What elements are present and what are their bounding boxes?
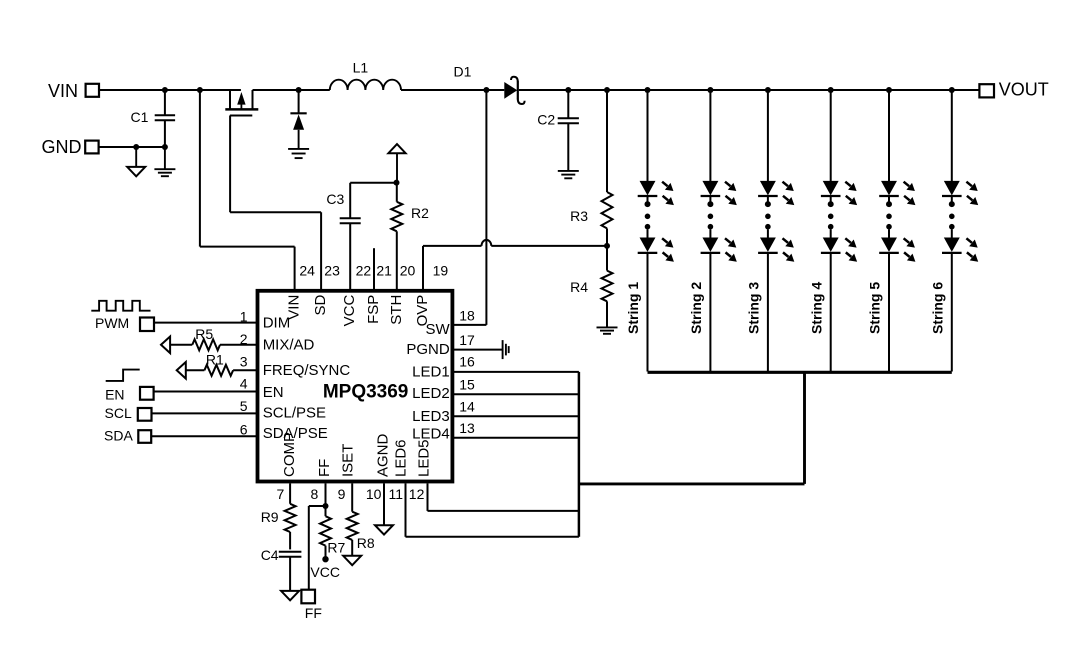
- svg-text:22: 22: [356, 263, 372, 279]
- svg-text:11: 11: [389, 486, 404, 502]
- svg-text:SDA: SDA: [104, 427, 133, 443]
- terminal SDA: [138, 430, 151, 443]
- wire FF to terminal: [309, 505, 326, 507]
- wire L1 to D1: [401, 89, 504, 91]
- svg-text:10: 10: [366, 486, 382, 502]
- ground (arrow) at GND: [135, 147, 137, 167]
- svg-text:R9: R9: [261, 509, 279, 525]
- svg-text:GND: GND: [42, 137, 82, 157]
- capacitor C1: [164, 90, 166, 115]
- terminal VOUT: [979, 84, 994, 97]
- node string 4 top junction: [828, 87, 834, 93]
- svg-text:R5: R5: [195, 326, 213, 342]
- ground (earth) below D2: [288, 148, 309, 150]
- wire pin 10 AGND: [383, 483, 385, 525]
- transistor Q1 channel plate: [225, 108, 258, 111]
- node OVP junction: [604, 243, 610, 249]
- terminal EN: [140, 387, 154, 400]
- svg-text:LED1: LED1: [412, 363, 450, 380]
- ground (earth) below C2: [558, 170, 579, 172]
- svg-text:R4: R4: [570, 279, 588, 295]
- svg-text:16: 16: [459, 354, 475, 370]
- transistor Q1 gate plate: [230, 115, 252, 117]
- capacitor C3: [349, 183, 351, 218]
- svg-text:LED5: LED5: [416, 439, 433, 477]
- transistor Q1 drain stub: [252, 90, 254, 109]
- svg-text:24: 24: [299, 263, 315, 279]
- svg-text:13: 13: [459, 420, 475, 436]
- arrow MIX/AD: [161, 337, 170, 354]
- wire pin 16 LED1: [453, 371, 579, 373]
- ground (earth) below R4: [597, 326, 618, 328]
- diode D1 schottky: [504, 82, 517, 99]
- wire LED return horizontal: [579, 482, 805, 485]
- node FF junction: [323, 503, 329, 509]
- EN step waveform symbol: [106, 370, 140, 381]
- transistor Q1 source stub: [229, 90, 231, 109]
- LED string 1 (diodes and wires): [647, 90, 649, 181]
- terminal FF: [301, 590, 315, 604]
- resistor R2: [396, 183, 398, 202]
- svg-text:VIN: VIN: [48, 81, 78, 101]
- terminal VIN: [86, 84, 99, 97]
- wire GND net: [99, 146, 165, 148]
- node VCC at R7: [322, 556, 328, 562]
- node C2 junction: [565, 87, 571, 93]
- svg-text:L1: L1: [353, 60, 369, 76]
- svg-text:18: 18: [459, 307, 475, 323]
- svg-text:LED6: LED6: [393, 439, 410, 477]
- svg-text:LED3: LED3: [412, 408, 450, 425]
- node VIN/pin24 junction: [197, 87, 203, 93]
- svg-text:COMP: COMP: [281, 432, 298, 477]
- svg-text:R3: R3: [570, 208, 588, 224]
- svg-text:String 2: String 2: [688, 282, 704, 334]
- wire pin 1 DIM: [154, 322, 258, 324]
- svg-text:C1: C1: [131, 109, 149, 125]
- svg-text:EN: EN: [263, 384, 284, 401]
- svg-text:R2: R2: [411, 205, 429, 221]
- wire pin 4 EN: [154, 391, 258, 393]
- LED string 4 (diodes and wires): [830, 90, 832, 181]
- node string 1 top junction: [645, 87, 651, 93]
- resistor R4: [606, 246, 608, 271]
- terminal GND: [85, 141, 98, 154]
- svg-text:AGND: AGND: [375, 433, 392, 477]
- svg-text:String 6: String 6: [930, 282, 946, 334]
- LED string 5 (diodes and wires): [888, 90, 890, 181]
- svg-text:8: 8: [311, 486, 319, 502]
- svg-text:VOUT: VOUT: [999, 80, 1049, 100]
- svg-text:VCC: VCC: [341, 295, 358, 327]
- ground (arrow) below AGND: [375, 525, 393, 534]
- svg-text:STH: STH: [388, 295, 405, 325]
- node string 5 top junction: [886, 87, 892, 93]
- svg-text:FREQ/SYNC: FREQ/SYNC: [263, 362, 351, 379]
- svg-text:20: 20: [400, 263, 416, 279]
- pin 21 stub FSP: [373, 248, 375, 289]
- node VIN/C1 junction: [162, 87, 168, 93]
- wire Q1 gate to pin 23: [229, 116, 231, 213]
- wire VIN to pin 24: [199, 90, 201, 247]
- inductor L1: [330, 80, 401, 90]
- diode D2 freewheel: [298, 90, 300, 113]
- LED string 2 (diodes and wires): [709, 90, 711, 181]
- svg-text:23: 23: [324, 263, 340, 279]
- PWM waveform symbol: [91, 301, 150, 311]
- svg-text:MIX/AD: MIX/AD: [263, 337, 315, 354]
- wire SW to switch node: [453, 324, 486, 326]
- node string 6 top junction: [949, 87, 955, 93]
- resistor R9: [289, 483, 291, 503]
- svg-text:C2: C2: [537, 111, 555, 127]
- svg-text:DIM: DIM: [263, 314, 291, 331]
- svg-text:R8: R8: [357, 535, 375, 551]
- ground (arrow) below C4: [281, 591, 299, 600]
- node GND/arrow junction: [133, 144, 139, 150]
- svg-text:FF: FF: [305, 605, 322, 621]
- ground (earth, rotated) at PGND: [502, 340, 504, 359]
- svg-text:9: 9: [338, 486, 346, 502]
- svg-text:SCL/PSE: SCL/PSE: [263, 405, 326, 422]
- terminal SCL: [138, 408, 152, 421]
- svg-text:7: 7: [277, 486, 285, 502]
- svg-text:5: 5: [240, 398, 248, 414]
- wire VOUT rail: [519, 89, 980, 91]
- node VCC/C3/R2 junction: [394, 180, 400, 186]
- wire LED string bottom bus: [648, 371, 952, 374]
- svg-text:21: 21: [376, 263, 392, 279]
- op-amp U1 MPQ3369 body: [258, 291, 453, 482]
- svg-text:17: 17: [459, 332, 475, 348]
- resistor R7: [325, 506, 327, 516]
- capacitor C2: [567, 90, 569, 118]
- svg-text:D1: D1: [454, 64, 472, 80]
- svg-text:R7: R7: [327, 539, 345, 555]
- transistor Q1 arrow: [240, 104, 242, 109]
- wire pin 11 LED6: [405, 483, 407, 536]
- svg-text:String 5: String 5: [867, 282, 883, 334]
- resistor R3: [606, 90, 608, 192]
- node string 2 top junction: [707, 87, 713, 93]
- svg-text:String 1: String 1: [625, 282, 641, 334]
- svg-text:LED2: LED2: [412, 385, 450, 402]
- wire LED collector bus: [578, 372, 581, 537]
- wire OVP to divider with hop: [423, 245, 482, 247]
- svg-text:PWM: PWM: [95, 315, 129, 331]
- node R3 top junction: [604, 87, 610, 93]
- svg-text:C3: C3: [326, 191, 344, 207]
- wire pin 6 SDA/PSE: [151, 435, 258, 437]
- wire VIN rail left: [99, 89, 241, 91]
- wire pin 13 LED4: [453, 437, 579, 439]
- ground (earth) below C1: [164, 147, 166, 169]
- wire junction to C3: [350, 182, 396, 184]
- resistor R1: [185, 369, 204, 371]
- resistor R5: [170, 344, 192, 346]
- capacitor C4: [279, 551, 302, 553]
- arrow FREQ/SYNC: [177, 362, 186, 379]
- wire pin 17 PGND: [453, 349, 502, 351]
- svg-text:MPQ3369: MPQ3369: [323, 382, 409, 403]
- wire LED return vertical: [803, 372, 806, 484]
- svg-text:FF: FF: [316, 459, 333, 477]
- svg-text:14: 14: [459, 398, 475, 414]
- svg-text:R1: R1: [206, 351, 224, 367]
- svg-text:SD: SD: [312, 295, 329, 316]
- node SW node junction: [483, 87, 489, 93]
- node string 3 top junction: [765, 87, 771, 93]
- svg-text:C4: C4: [261, 547, 279, 563]
- LED string 6 (diodes and wires): [951, 90, 953, 181]
- svg-text:String 4: String 4: [808, 282, 824, 334]
- LED string 3 (diodes and wires): [767, 90, 769, 181]
- svg-text:FSP: FSP: [365, 295, 382, 324]
- svg-text:3: 3: [240, 354, 248, 370]
- svg-text:VCC: VCC: [310, 564, 340, 580]
- wire pin 12 LED5: [427, 483, 429, 511]
- node SW/diode junction: [296, 87, 302, 93]
- wire pin 15 LED2: [453, 393, 579, 395]
- svg-text:ISET: ISET: [340, 444, 357, 477]
- power arrow VCC: [388, 144, 405, 153]
- wire pin 8 FF: [325, 483, 327, 506]
- svg-text:12: 12: [409, 486, 425, 502]
- wire pin 14 LED3: [453, 415, 579, 417]
- svg-text:SCL: SCL: [105, 405, 132, 421]
- wire pin 5 SCL/PSE: [152, 412, 259, 414]
- svg-text:String 3: String 3: [746, 282, 762, 334]
- terminal PWM: [140, 318, 154, 332]
- resistor R8: [351, 483, 353, 511]
- svg-text:SW: SW: [426, 321, 451, 338]
- svg-text:EN: EN: [105, 387, 124, 403]
- svg-text:15: 15: [459, 376, 475, 392]
- wire Q1 drain to L1: [253, 89, 330, 91]
- svg-text:PGND: PGND: [406, 341, 450, 358]
- node GND/C1 junction: [162, 144, 168, 150]
- svg-text:4: 4: [240, 375, 248, 391]
- svg-text:19: 19: [433, 263, 449, 279]
- ground (arrow) below R8: [343, 556, 361, 565]
